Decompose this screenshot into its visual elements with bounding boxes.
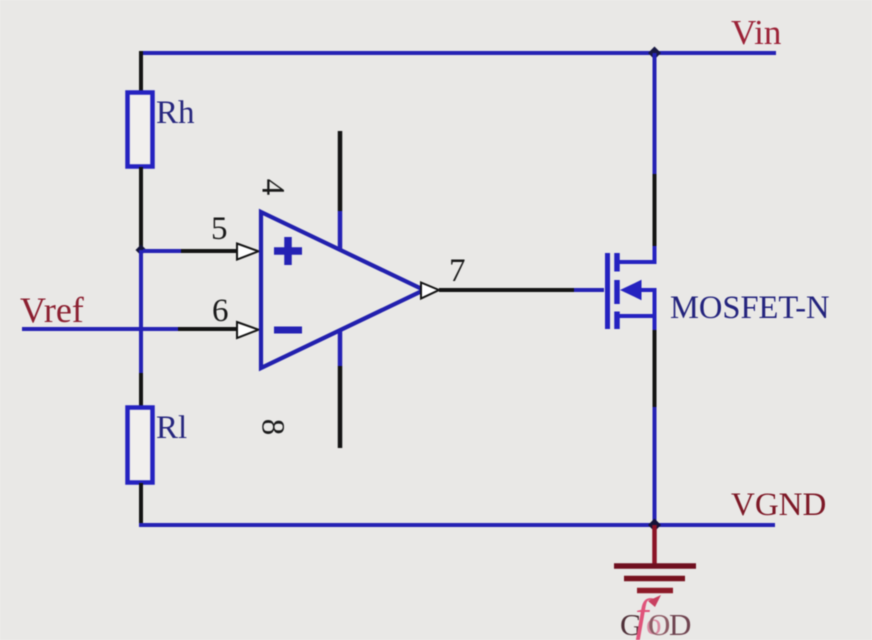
svg-text:O: O [648, 607, 670, 640]
svg-text:VGND: VGND [731, 487, 826, 523]
pin 8 power lead lower (black) [338, 366, 343, 448]
svg-text:MOSFET-N: MOSFET-N [670, 290, 830, 326]
wire: source branch to VGND rail (blue) [653, 407, 657, 527]
wire: pin 5 input lead (black segment) [181, 249, 237, 253]
transistor Q1 body arrow [620, 280, 642, 300]
svg-text:D: D [669, 607, 691, 640]
ground symbol bar 3 [637, 588, 673, 594]
ground symbol stub [652, 525, 657, 566]
junction at Vin rail and drain branch [648, 47, 661, 60]
wire: VGND bottom rail [139, 523, 775, 527]
op-amp minus input marking [274, 327, 302, 334]
wire: left rail black segment above Rl [139, 373, 143, 408]
pin 4 power lead upper (black) [338, 131, 343, 211]
wire: Vin top rail [139, 51, 776, 55]
transistor Q1 source stub [617, 314, 657, 318]
pin 8 power lead upper (blue) [338, 331, 343, 366]
wire: Vref lead (blue) [22, 327, 178, 331]
pin 4 power lead lower (blue) [338, 211, 343, 249]
pin 7 output arrowhead [421, 283, 439, 299]
wire: left rail between Rh and junction (black) [139, 167, 143, 250]
resistor Rh [128, 93, 153, 167]
pin 5 arrowhead [237, 244, 259, 260]
wire: left rail blue segment junction to below Vref [139, 250, 143, 373]
wire: pin 6 input lead (black segment) [178, 327, 237, 331]
transistor Q1 drain stub [617, 260, 657, 264]
transistor Q1 body-source tie [653, 290, 657, 316]
svg-text:7: 7 [449, 253, 466, 289]
wire: source branch middle (black) [653, 330, 657, 407]
op-amp plus input marking [274, 237, 302, 265]
wire: pin 5 input from divider node (blue segment) [143, 249, 181, 253]
wire: drain lead (blue) [653, 246, 657, 264]
pin 6 arrowhead [237, 322, 259, 338]
svg-text:Vref: Vref [20, 290, 84, 330]
svg-text:8: 8 [255, 419, 291, 436]
svg-text:5: 5 [211, 211, 228, 247]
svg-text:6: 6 [212, 293, 229, 329]
svg-text:Vin: Vin [731, 13, 781, 52]
resistor Rl [128, 408, 153, 483]
svg-text:4: 4 [255, 179, 291, 196]
ground GND label crimson flag [648, 595, 661, 607]
wire: drain branch middle (black) [653, 174, 657, 246]
transistor Q1 channel bar segments [614, 253, 620, 329]
wire: drain branch from Vin rail (blue) [653, 53, 657, 174]
wire: left rail bottom segment (black) [139, 483, 143, 527]
transistor Q1 MOSFET-N gate bar [605, 253, 610, 329]
junction at divider node [136, 245, 147, 256]
svg-text:Rl: Rl [156, 410, 187, 446]
ground symbol bar 1 [614, 563, 696, 569]
junction at VGND rail and source branch [648, 519, 661, 532]
wire: gate lead (blue) [574, 288, 604, 292]
op-amp U1 triangle [261, 212, 424, 368]
wire: left rail top segment (black) [139, 51, 143, 93]
wire: source lead (blue) [653, 316, 657, 330]
ground symbol bar 2 [624, 576, 685, 582]
transistor Q1 body lead [638, 288, 657, 292]
svg-text:Rh: Rh [156, 95, 195, 131]
wire: op-amp output to gate (black) [439, 288, 574, 292]
